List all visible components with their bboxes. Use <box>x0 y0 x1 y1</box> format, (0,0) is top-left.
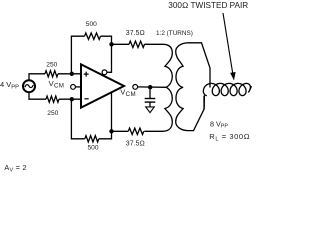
svg-text:500: 500 <box>88 144 99 151</box>
wire 500 top to junction <box>101 36 112 44</box>
op-amp output bubble (inverting) <box>102 70 107 75</box>
svg-text:1:2 (TURNS): 1:2 (TURNS) <box>156 30 193 37</box>
twisted pair coil <box>203 83 251 95</box>
svg-text:250: 250 <box>46 62 57 69</box>
wire feedback top vertical <box>71 36 84 74</box>
wire 250 top to +in <box>58 73 81 75</box>
wire Vcm terminal to op-amp <box>75 86 81 88</box>
wire junction to capacitor <box>149 87 151 98</box>
source VS 4 Vpp <box>23 80 35 92</box>
wire Vcm to center tap <box>138 86 167 88</box>
node Vcm terminal (center tap) <box>133 85 138 90</box>
transformer T1 secondary winding <box>176 43 210 131</box>
wire twisted pair bottom lead <box>203 95 205 109</box>
op-amp U1 fully differential <box>81 64 124 107</box>
wire feedback bottom vertical <box>71 99 84 139</box>
svg-text:AV = 2: AV = 2 <box>4 163 26 174</box>
wire source top lead <box>29 74 45 81</box>
svg-text:300Ω TWISTED PAIR: 300Ω TWISTED PAIR <box>168 1 248 10</box>
resistor 37.5 top <box>129 41 145 47</box>
node bottom output junction <box>109 129 113 133</box>
wire capacitor to ground <box>149 102 151 107</box>
wire top output rail <box>112 43 130 45</box>
svg-text:37.5Ω: 37.5Ω <box>126 30 145 37</box>
wire bottom output rail <box>112 130 129 132</box>
node top output junction <box>109 42 113 46</box>
resistor 37.5 bottom <box>128 128 144 134</box>
wire 250 bottom to -in <box>59 98 81 100</box>
capacitor C1 <box>145 99 156 103</box>
node +in junction <box>70 72 74 76</box>
wire out+ to bottom junction <box>111 92 113 131</box>
resistor 500 top <box>85 33 101 39</box>
svg-text:37.5Ω: 37.5Ω <box>126 140 145 147</box>
svg-text:250: 250 <box>47 110 58 117</box>
arrow to twisted pair <box>223 13 236 81</box>
wire bubble to top junction <box>107 44 112 72</box>
transformer T1 primary winding <box>144 44 172 131</box>
node -in junction <box>70 97 74 101</box>
node center tap junction <box>148 85 152 89</box>
resistor 250 bottom <box>46 96 59 102</box>
svg-text:500: 500 <box>86 21 97 28</box>
resistor 500 bottom <box>85 136 99 142</box>
resistor 250 top <box>45 71 58 77</box>
node Vcm input terminal (left) <box>71 85 76 90</box>
wire source bottom lead <box>29 92 46 99</box>
ground <box>146 107 155 113</box>
wire 500 bottom to junction <box>99 131 112 139</box>
